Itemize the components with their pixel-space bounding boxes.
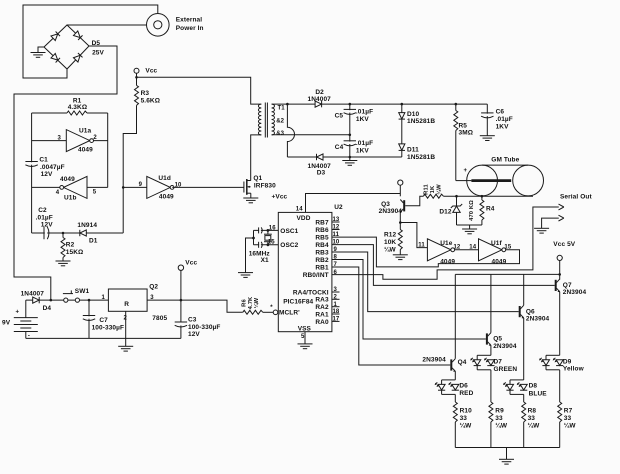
svg-text:R8: R8 bbox=[528, 408, 537, 415]
svg-text:Yellow: Yellow bbox=[563, 366, 585, 373]
wire D12 R4 bottom row bbox=[457, 224, 482, 226]
svg-text:RB2: RB2 bbox=[315, 257, 329, 264]
svg-text:1KV: 1KV bbox=[356, 148, 370, 155]
crystal X1 bbox=[267, 230, 269, 234]
svg-text:&3: &3 bbox=[276, 131, 284, 137]
svg-text:U1f: U1f bbox=[491, 240, 503, 247]
svg-text:4049: 4049 bbox=[78, 147, 93, 154]
svg-text:4: 4 bbox=[56, 190, 60, 196]
svg-text:¼W: ¼W bbox=[495, 421, 508, 429]
svg-text:RB0/INT: RB0/INT bbox=[303, 272, 329, 279]
svg-text:12: 12 bbox=[333, 225, 340, 231]
pin MCLR bbox=[273, 310, 278, 315]
pin RB7 bbox=[332, 221, 340, 223]
svg-text:4049: 4049 bbox=[159, 194, 174, 201]
svg-text:C2: C2 bbox=[38, 207, 47, 214]
svg-text:GM Tube: GM Tube bbox=[491, 156, 519, 163]
svg-text:4.3KΩ: 4.3KΩ bbox=[68, 104, 87, 111]
svg-text:.0047µF: .0047µF bbox=[40, 164, 65, 171]
svg-text:4049: 4049 bbox=[60, 176, 75, 183]
svg-text:16: 16 bbox=[269, 226, 276, 232]
svg-text:Q3: Q3 bbox=[381, 201, 390, 208]
resistor R7 bbox=[559, 370, 561, 402]
svg-text:VSS: VSS bbox=[298, 326, 312, 333]
svg-text:IRF830: IRF830 bbox=[254, 183, 276, 190]
wire Q4 emitter to D6 bbox=[454, 371, 456, 380]
svg-text:Q5: Q5 bbox=[493, 336, 502, 343]
svg-text:D12: D12 bbox=[439, 208, 452, 215]
wire top frame loop bbox=[23, 5, 158, 78]
svg-text:Vcc: Vcc bbox=[145, 67, 157, 74]
svg-text:¼W: ¼W bbox=[384, 246, 397, 254]
svg-text:C5: C5 bbox=[335, 113, 344, 120]
svg-text:14: 14 bbox=[296, 206, 303, 212]
resistor R6 bbox=[243, 310, 263, 314]
diode D2 1N4007 bbox=[315, 101, 322, 107]
wire LED ground rail bbox=[455, 447, 559, 449]
svg-text:U2: U2 bbox=[334, 204, 343, 211]
ground regulator bbox=[125, 311, 127, 346]
svg-text:14: 14 bbox=[469, 244, 476, 250]
capacitor C6 bbox=[486, 104, 488, 136]
op-amp U1b inverter bbox=[87, 186, 108, 188]
regulator Q2 7805 bbox=[108, 289, 147, 311]
resistor R11 bbox=[423, 194, 443, 198]
svg-text:External: External bbox=[176, 16, 203, 23]
resistor R10 bbox=[454, 394, 456, 402]
svg-text:C1: C1 bbox=[39, 157, 48, 164]
svg-text:Serial Out: Serial Out bbox=[560, 194, 592, 201]
diode D3 1N4007 bbox=[317, 154, 324, 160]
svg-text:R11: R11 bbox=[424, 184, 430, 195]
GM tube anode wire bbox=[456, 180, 472, 182]
svg-text:D4: D4 bbox=[43, 305, 52, 312]
svg-text:D7: D7 bbox=[494, 358, 503, 365]
svg-text:+Vcc: +Vcc bbox=[272, 193, 288, 200]
svg-text:D3: D3 bbox=[317, 169, 326, 176]
svg-text:Q4: Q4 bbox=[458, 359, 467, 366]
svg-text:R12: R12 bbox=[384, 232, 397, 239]
pin OSC1 bbox=[254, 229, 279, 231]
svg-text:.01µF: .01µF bbox=[36, 214, 53, 221]
serial out arrow 1 bbox=[559, 204, 564, 210]
svg-text:100-330µF: 100-330µF bbox=[188, 324, 220, 331]
svg-text:VDD: VDD bbox=[297, 215, 311, 222]
pin RA3 bbox=[332, 298, 340, 300]
GM tube bbox=[482, 164, 528, 166]
svg-text:1N5281B: 1N5281B bbox=[407, 118, 435, 125]
transformer T1 bbox=[258, 104, 261, 135]
svg-text:+: + bbox=[16, 310, 20, 316]
wire HV bottom line bbox=[287, 156, 401, 158]
svg-text:4.7K: 4.7K bbox=[248, 296, 254, 309]
ground crystal bbox=[238, 273, 253, 278]
svg-text:100-330µF: 100-330µF bbox=[92, 325, 124, 332]
svg-text:1K: 1K bbox=[430, 185, 436, 193]
svg-text:RA2: RA2 bbox=[315, 304, 329, 311]
svg-text:¼W: ¼W bbox=[528, 421, 541, 429]
svg-text:15KΩ: 15KΩ bbox=[66, 249, 84, 256]
transistor Q6 2N3904 bbox=[519, 305, 525, 318]
svg-text:RA4/TOCKI: RA4/TOCKI bbox=[293, 289, 329, 296]
svg-text:C7: C7 bbox=[99, 317, 108, 324]
svg-text:.01µF: .01µF bbox=[356, 109, 373, 116]
wire R11 to Q3 base bbox=[405, 196, 423, 206]
diode D4 1N4007 bbox=[33, 297, 40, 303]
svg-text:¼W: ¼W bbox=[460, 421, 473, 429]
svg-text:R10: R10 bbox=[460, 408, 473, 415]
IC U2 PIC16F84 box bbox=[278, 212, 332, 331]
svg-text:RB3: RB3 bbox=[315, 249, 329, 256]
svg-text:D6: D6 bbox=[459, 382, 468, 389]
resistor R2 bbox=[62, 233, 64, 238]
svg-text:4049: 4049 bbox=[492, 258, 507, 265]
svg-text:U1a: U1a bbox=[79, 128, 92, 135]
svg-text:R5: R5 bbox=[459, 123, 468, 130]
diode D12 zener bbox=[456, 196, 458, 206]
wire HV top line bbox=[272, 103, 488, 105]
svg-text:Q6: Q6 bbox=[526, 308, 535, 315]
capacitor C3 bbox=[174, 322, 187, 327]
svg-text:MCLR': MCLR' bbox=[279, 310, 300, 317]
diode bridge top-left bbox=[51, 31, 60, 40]
svg-text:¼W: ¼W bbox=[253, 297, 260, 308]
wire R3 to oscillator output rail bbox=[123, 105, 136, 233]
svg-text:RB5: RB5 bbox=[315, 234, 329, 241]
svg-text:BLUE: BLUE bbox=[529, 390, 548, 397]
capacitor C1 bbox=[25, 162, 38, 167]
node Vcc regulator bbox=[178, 265, 183, 270]
ground LED rail bbox=[499, 459, 514, 464]
svg-text:2N3904: 2N3904 bbox=[379, 208, 403, 215]
wire battery row to regulator bbox=[26, 299, 109, 301]
svg-text:1N914: 1N914 bbox=[77, 222, 97, 229]
svg-text:470 KΩ: 470 KΩ bbox=[469, 200, 475, 221]
ground VSS bbox=[304, 332, 306, 344]
diode D10 1N5281B bbox=[401, 104, 403, 144]
svg-text:C3: C3 bbox=[188, 316, 197, 323]
ground R2 bbox=[56, 261, 71, 266]
op-amp U1e inverter bbox=[427, 239, 454, 261]
svg-text:SW1: SW1 bbox=[75, 288, 90, 295]
svg-text:2: 2 bbox=[93, 135, 97, 141]
svg-text:Q1: Q1 bbox=[253, 175, 262, 182]
svg-text:1N5281B: 1N5281B bbox=[407, 154, 435, 161]
pin RA2 bbox=[332, 306, 340, 308]
wire GM cathode row bbox=[443, 195, 533, 197]
ground C4 bbox=[342, 161, 357, 166]
svg-text:U1d: U1d bbox=[158, 175, 171, 182]
ground C6 bbox=[480, 136, 495, 141]
svg-text:&2: &2 bbox=[276, 119, 284, 125]
ground Q1 source bbox=[250, 193, 252, 198]
wire transformer primary bottom to Q1 drain bbox=[251, 135, 262, 181]
svg-text:PIC16F84: PIC16F84 bbox=[283, 299, 313, 306]
LED D7 GREEN bbox=[470, 355, 494, 370]
wire Q5 emitter to D7 bbox=[490, 345, 492, 355]
wire bottom power rail bbox=[26, 337, 181, 339]
transistor Q1 IRF830 MOSFET bbox=[243, 182, 245, 193]
svg-text:1KV: 1KV bbox=[496, 123, 510, 130]
resistor R1 bbox=[32, 112, 67, 114]
resistor R8 bbox=[523, 394, 525, 402]
svg-text:D8: D8 bbox=[529, 382, 538, 389]
resistor R3 bbox=[135, 85, 139, 105]
svg-text:1: 1 bbox=[102, 295, 106, 301]
svg-text:11: 11 bbox=[418, 242, 425, 248]
op-amp U1a inverter bbox=[32, 140, 67, 142]
svg-text:R: R bbox=[124, 301, 129, 308]
svg-text:+: + bbox=[464, 168, 468, 174]
wire Q7 emitter to D9 bbox=[559, 292, 561, 356]
svg-text:C4: C4 bbox=[335, 144, 344, 151]
wire RB4 to Q7 base bbox=[332, 245, 555, 286]
wire U1d output to Q1 gate bbox=[172, 186, 244, 188]
svg-text:12V: 12V bbox=[188, 331, 200, 338]
pin OSC2 bbox=[254, 244, 279, 246]
wire RB0 to serial out bbox=[332, 207, 559, 279]
svg-text:11: 11 bbox=[333, 232, 340, 238]
svg-text:5.6KΩ: 5.6KΩ bbox=[141, 98, 160, 105]
svg-text:33: 33 bbox=[460, 415, 468, 422]
svg-text:D10: D10 bbox=[407, 111, 420, 118]
diode bridge bottom-right bbox=[73, 53, 82, 62]
capacitor C5 bbox=[349, 104, 351, 135]
switch SW1 bbox=[64, 298, 68, 302]
serial out arrow 2 ground bbox=[542, 218, 559, 228]
svg-text:18: 18 bbox=[333, 309, 340, 315]
diode bridge top-right bbox=[73, 31, 82, 40]
svg-text:R4: R4 bbox=[486, 206, 495, 213]
ground serial bbox=[534, 228, 549, 233]
resistor R9 bbox=[490, 370, 492, 402]
svg-text:Q2: Q2 bbox=[149, 283, 158, 290]
wire crystal caps to ground bbox=[253, 230, 255, 244]
wire U1f output loop to RB5 bbox=[332, 237, 520, 267]
capacitor C7 bbox=[88, 300, 90, 338]
op-amp U1f inverter bbox=[479, 239, 506, 261]
svg-text:2N3904: 2N3904 bbox=[493, 343, 517, 350]
svg-text:R9: R9 bbox=[495, 408, 504, 415]
svg-text:10K: 10K bbox=[384, 239, 396, 246]
svg-text:D9: D9 bbox=[563, 358, 572, 365]
svg-text:13: 13 bbox=[333, 217, 340, 223]
ground bridge bbox=[38, 47, 44, 53]
wire U1d input bbox=[123, 186, 147, 188]
wire U1e out to U1f in bbox=[455, 249, 479, 251]
svg-text:R3: R3 bbox=[141, 90, 150, 97]
wire Q6 emitter to D8 bbox=[523, 318, 525, 380]
svg-text:.01µF: .01µF bbox=[496, 116, 513, 123]
pin RA4/TOCKI bbox=[332, 291, 340, 293]
resistor R4 bbox=[481, 196, 483, 200]
svg-text:2N3904: 2N3904 bbox=[422, 357, 446, 364]
wire secondary bottom tap line bbox=[272, 134, 350, 136]
resistor R5 bbox=[455, 104, 457, 110]
svg-text:2N3904: 2N3904 bbox=[526, 316, 550, 323]
wire Q3 emitter to R12 and U1e bbox=[400, 223, 427, 248]
LED D6 RED bbox=[435, 380, 459, 395]
wire C2 D1 row bbox=[32, 232, 124, 234]
wire oscillator left column bbox=[31, 113, 33, 233]
wire secondary top to bottom row with hop bbox=[287, 104, 294, 157]
capacitor C4 bbox=[349, 135, 351, 161]
svg-text:T1: T1 bbox=[278, 106, 286, 112]
svg-text:RB4: RB4 bbox=[315, 242, 329, 249]
svg-text:R6: R6 bbox=[242, 299, 248, 307]
wire rail to Q6 collector bbox=[523, 274, 525, 305]
diode D11 1N5281B bbox=[401, 144, 403, 157]
svg-text:RB1: RB1 bbox=[315, 264, 329, 271]
wire bridge top output to connector bbox=[67, 24, 154, 26]
connector J1 External Power In bbox=[147, 13, 170, 36]
svg-text:Vcc 5V: Vcc 5V bbox=[553, 241, 575, 248]
svg-text:OSC2: OSC2 bbox=[280, 242, 298, 249]
node pulse circle bbox=[398, 180, 403, 185]
svg-text:1: 1 bbox=[334, 302, 338, 308]
wire regulator output to Vcc and R6 bbox=[147, 300, 243, 312]
svg-text:1KV: 1KV bbox=[356, 116, 370, 123]
ground R12 bbox=[393, 255, 408, 260]
svg-text:C6: C6 bbox=[496, 109, 505, 116]
svg-text:RB6: RB6 bbox=[315, 227, 329, 234]
svg-text:Power In: Power In bbox=[176, 25, 204, 32]
node Vcc top bbox=[134, 68, 139, 73]
svg-text:R2: R2 bbox=[66, 242, 75, 249]
svg-text:¼W: ¼W bbox=[435, 184, 442, 195]
transistor Q5 2N3904 bbox=[486, 333, 492, 346]
svg-text:3: 3 bbox=[334, 287, 338, 293]
wire VDD pin to +Vcc rail bbox=[306, 194, 401, 213]
resistor R12 bbox=[399, 223, 401, 230]
svg-text:.01µF: .01µF bbox=[356, 140, 373, 147]
LED D8 BLUE bbox=[503, 380, 527, 395]
svg-text:RED: RED bbox=[459, 390, 473, 397]
svg-text:*: * bbox=[270, 305, 273, 311]
svg-text:7805: 7805 bbox=[152, 315, 167, 322]
svg-text:D11: D11 bbox=[407, 147, 419, 154]
svg-text:RA0: RA0 bbox=[315, 319, 329, 326]
svg-text:2N3904: 2N3904 bbox=[563, 289, 587, 296]
wire +5V collector rail bbox=[455, 273, 559, 275]
LED D9 Yellow bbox=[539, 355, 563, 370]
svg-text:GREEN: GREEN bbox=[494, 366, 518, 373]
wire Vcc rail to transformer primary bbox=[137, 77, 262, 104]
transistor Q4 2N3904 bbox=[450, 359, 456, 372]
svg-text:X1: X1 bbox=[261, 257, 269, 264]
transistor Q7 2N3904 bbox=[555, 279, 561, 292]
svg-text:33: 33 bbox=[564, 415, 572, 422]
wire RB3 to Q6 base bbox=[332, 252, 519, 312]
capacitor crystal load top bbox=[259, 227, 263, 234]
svg-text:¼W: ¼W bbox=[564, 421, 577, 429]
svg-text:R7: R7 bbox=[564, 408, 573, 415]
svg-text:5: 5 bbox=[93, 189, 97, 195]
svg-text:12V: 12V bbox=[41, 222, 53, 229]
svg-text:3: 3 bbox=[58, 135, 62, 141]
svg-text:12V: 12V bbox=[41, 171, 53, 178]
svg-text:RA3: RA3 bbox=[315, 297, 329, 304]
svg-text:33: 33 bbox=[495, 415, 503, 422]
svg-text:5: 5 bbox=[301, 334, 305, 340]
wire rail to Q4 collector bbox=[454, 274, 456, 358]
svg-text:D1: D1 bbox=[89, 238, 98, 245]
wire RB1 to Q4 base bbox=[332, 267, 450, 365]
svg-text:OSC1: OSC1 bbox=[280, 228, 298, 235]
transistor Q3 2N3904 bbox=[403, 200, 405, 211]
wire rail to Q5 collector bbox=[490, 274, 492, 332]
svg-text:9: 9 bbox=[139, 182, 143, 188]
svg-text:1N4007: 1N4007 bbox=[21, 290, 45, 297]
svg-text:4049: 4049 bbox=[440, 258, 455, 265]
bridge rectifier D5 diamond bbox=[44, 25, 89, 69]
svg-text:3MΩ: 3MΩ bbox=[459, 130, 474, 137]
wire RB2 to Q5 base bbox=[332, 260, 486, 340]
svg-text:17: 17 bbox=[333, 317, 340, 323]
capacitor C2 bbox=[44, 226, 49, 239]
svg-text:RA1: RA1 bbox=[315, 311, 329, 318]
op-amp U1d inverter bbox=[147, 176, 174, 198]
svg-text:Q7: Q7 bbox=[563, 282, 572, 289]
diode D1 1N914 bbox=[80, 230, 87, 236]
svg-text:33: 33 bbox=[528, 415, 536, 422]
svg-text:U1b: U1b bbox=[64, 195, 77, 202]
svg-text:25V: 25V bbox=[92, 50, 104, 57]
diode bridge bottom-left bbox=[51, 53, 60, 62]
pin RB6 bbox=[332, 229, 340, 231]
svg-text:U1e: U1e bbox=[440, 240, 453, 247]
capacitor crystal load bottom bbox=[259, 241, 263, 248]
svg-text:RB7: RB7 bbox=[315, 219, 329, 226]
svg-text:Vcc: Vcc bbox=[185, 259, 197, 266]
pin RA0 bbox=[332, 320, 340, 322]
wire bridge DC+ to left rail bbox=[14, 46, 117, 300]
pin RA1 bbox=[332, 313, 340, 315]
svg-text:2: 2 bbox=[334, 295, 338, 301]
svg-text:9V: 9V bbox=[2, 320, 11, 327]
ground D12 R4 bbox=[462, 229, 477, 234]
svg-text:6: 6 bbox=[334, 270, 338, 276]
wire oscillator right column bbox=[107, 113, 109, 187]
svg-text:1N4007: 1N4007 bbox=[308, 96, 332, 103]
